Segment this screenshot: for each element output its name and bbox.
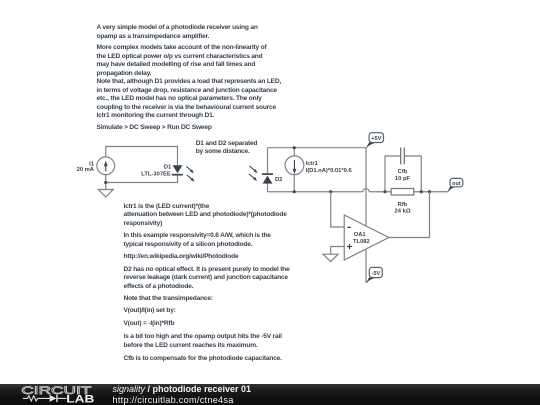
flag -5V [366,277,375,283]
wire +5V to op-amp V+ pin [365,148,367,227]
svg-text:OA1: OA1 [354,232,367,238]
note: responsivity paragraph [124,232,271,249]
note: Cfb compensate [124,355,282,364]
label leader dash D1 [172,174,176,176]
note: transimpedance [124,295,213,304]
LED D1 [173,165,183,173]
note: D1 load paragraph [97,78,282,121]
wire hop over +5V line [363,189,369,192]
svg-text:Cfb: Cfb [398,169,408,175]
note: vout equation [124,320,175,329]
svg-text:10 pF: 10 pF [395,176,411,182]
current source Ictr1 [293,148,295,192]
note: too high paragraph [124,333,282,350]
note: simulate instruction [97,124,212,133]
flag +5V [366,142,375,148]
footer title [113,385,252,395]
svg-text:20 mA: 20 mA [77,167,95,173]
wire TX loop top [106,147,178,166]
wire RX bottom rail left [268,191,363,193]
ground (TX) [98,190,113,197]
ground (op-amp +) [323,254,338,261]
note: D2 optical paragraph [124,266,290,292]
note: vout/iin [124,307,176,316]
node TX bottom junction [104,181,107,184]
node top rail junction [293,146,296,149]
node Cfb left junction [383,190,386,193]
wire TX loop bottom [106,175,178,190]
light arrows into D2 [249,166,255,178]
CircuitLab logo [0,382,110,405]
wire non-inverting input [331,247,345,255]
current source I1 [97,157,115,175]
wire inverting input [331,192,345,227]
wire RX top rail [268,147,367,149]
svg-text:LTL-307EE: LTL-307EE [141,172,171,178]
note: Ictr1 explanation [124,203,287,229]
resistor Rfb [391,189,414,196]
capacitor Cfb loop [385,156,421,192]
svg-text:D1: D1 [164,165,172,171]
pin plus [347,244,352,249]
node Cfb right junction [420,190,423,193]
svg-text:D2: D2 [275,177,282,183]
node bottom rail Ictr1 junction [293,190,296,193]
svg-text:-5V: -5V [371,271,380,277]
note: D1 and D2 separated label [196,140,258,156]
pin minus [347,226,351,228]
wire op-amp output [389,192,430,238]
photodiode D2 [262,173,273,175]
note: wikipedia link [124,253,239,262]
svg-text:LAB: LAB [66,393,94,405]
wire RX bottom rail right [369,191,447,193]
note: intro paragraph [97,23,258,41]
wire D2 branch [267,148,269,192]
op-amp OA1 [344,215,389,260]
svg-text:TL082: TL082 [353,239,370,245]
footer bar [0,384,540,405]
svg-text:Ictr1: Ictr1 [306,161,319,167]
wire op-amp V- pin [365,249,367,283]
svg-text:24 kΩ: 24 kΩ [395,209,411,215]
svg-text:I(D1.nA)*0.01*0.6: I(D1.nA)*0.01*0.6 [306,168,353,174]
capacitor Cfb plates [401,148,405,165]
note: complex models paragraph [97,44,267,78]
svg-text:+5V: +5V [371,136,381,142]
footer url [113,395,234,405]
node output branch junction [428,190,431,193]
flag out [447,186,455,192]
node inverting branch junction [329,190,332,193]
svg-text:out: out [452,181,461,187]
svg-text:Rfb: Rfb [398,202,408,208]
light arrows from D1 [186,166,191,178]
